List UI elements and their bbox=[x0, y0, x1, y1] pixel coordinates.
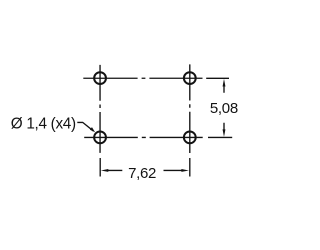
dimension line 5,08 vertical bbox=[223, 85, 225, 130]
hole bottom-left bbox=[94, 132, 106, 144]
centerline horizontal bottom row (dash-dot) bbox=[84, 136, 203, 138]
extension line right of bottom-right hole bbox=[208, 136, 232, 138]
leader arrow to bottom-left hole bbox=[90, 127, 95, 132]
svg-text:Ø 1,4 (x4): Ø 1,4 (x4) bbox=[11, 116, 76, 133]
centerline vertical left column (dash-dot) bbox=[99, 65, 101, 153]
centerline horizontal top row (dash-dot) bbox=[83, 77, 202, 79]
arrow right (7,62) bbox=[181, 169, 189, 172]
hole top-right bbox=[184, 72, 196, 84]
hole bottom-right bbox=[184, 132, 196, 144]
centerline vertical right column (dash-dot) bbox=[189, 64, 191, 153]
arrow left (7,62) bbox=[101, 169, 109, 172]
hole top-left bbox=[94, 72, 106, 84]
extension line right of top-right hole bbox=[206, 77, 229, 79]
svg-text:5,08: 5,08 bbox=[210, 100, 238, 117]
dimension line 7,62 horizontal bbox=[107, 169, 182, 171]
arrow down (5,08 bottom) bbox=[223, 129, 226, 137]
extension line below bottom-left hole bbox=[99, 158, 101, 177]
leader line from label bbox=[77, 122, 93, 131]
svg-text:7,62: 7,62 bbox=[128, 165, 156, 182]
arrow up (5,08 top) bbox=[223, 79, 226, 87]
extension line below bottom-right hole bbox=[189, 158, 191, 177]
